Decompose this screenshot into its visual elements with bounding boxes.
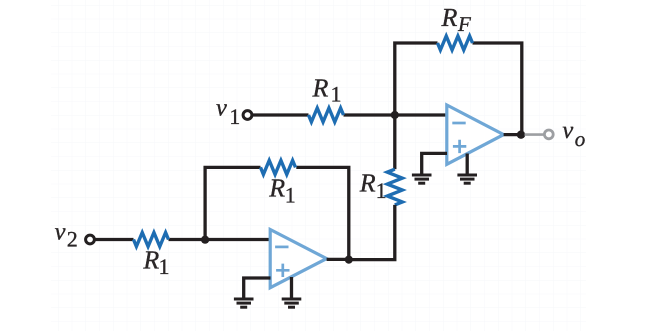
wire from U1 node down to vertical R1 (393, 115, 396, 169)
wire output lead (gray) (525, 133, 545, 136)
node at U2 output (345, 256, 353, 264)
svg-text:R: R (312, 73, 329, 102)
svg-text:F: F (457, 12, 471, 36)
ground (U1 right) (457, 175, 477, 183)
terminal v1 (243, 111, 252, 120)
wire U2 feedback loop (205, 167, 349, 259)
wire from vertical R1 down to U2 output rail (349, 205, 395, 260)
wire v2 lead to U2 inverting input (95, 238, 270, 241)
U1 plus sign (453, 140, 466, 153)
resistor RF (438, 36, 473, 50)
wire U2 output (327, 258, 349, 261)
op-amp U1 (447, 105, 504, 164)
wire U1 noninverting input to ground (422, 153, 447, 173)
svg-text:R: R (441, 3, 458, 32)
svg-text:R: R (268, 174, 285, 203)
svg-text:R: R (142, 245, 159, 274)
op-amp U2 (270, 230, 326, 288)
resistor R1 input of v1 (309, 108, 344, 122)
svg-text:1: 1 (159, 254, 170, 279)
svg-text:1: 1 (229, 104, 240, 129)
resistor R1 feedback of U2 (261, 160, 296, 174)
wire U1 body stub to ground (466, 154, 469, 174)
wire v1 lead to U1 inverting node (252, 113, 446, 116)
svg-text:R: R (359, 169, 376, 198)
svg-text:2: 2 (67, 226, 78, 251)
svg-text:1: 1 (331, 82, 342, 107)
svg-text:1: 1 (376, 178, 387, 203)
node at U1 output (517, 131, 525, 139)
ground (U1 noninverting) (412, 175, 432, 183)
node at U1 inverting input (391, 111, 399, 119)
U2 plus sign (276, 264, 289, 277)
svg-text:v: v (55, 219, 66, 246)
node at U2 inverting input (201, 236, 209, 244)
terminal v2 (86, 235, 95, 244)
wire U1 output (504, 133, 522, 136)
resistor R1 vertical (387, 169, 402, 205)
U2 minus sign (275, 246, 288, 249)
U1 minus sign (452, 122, 465, 125)
svg-text:1: 1 (285, 182, 296, 207)
svg-text:v: v (216, 95, 227, 122)
svg-text:o: o (575, 127, 586, 151)
wire U2 body stub to ground (290, 277, 293, 298)
wire RF feedback loop (395, 43, 522, 133)
resistor R1 input of v2 (134, 233, 169, 247)
svg-text:v: v (562, 117, 573, 144)
ground (U2 right) (282, 299, 302, 307)
terminal vo (544, 130, 553, 139)
ground (U2 noninverting) (234, 299, 254, 307)
wire U2 noninverting input to ground (244, 278, 271, 298)
